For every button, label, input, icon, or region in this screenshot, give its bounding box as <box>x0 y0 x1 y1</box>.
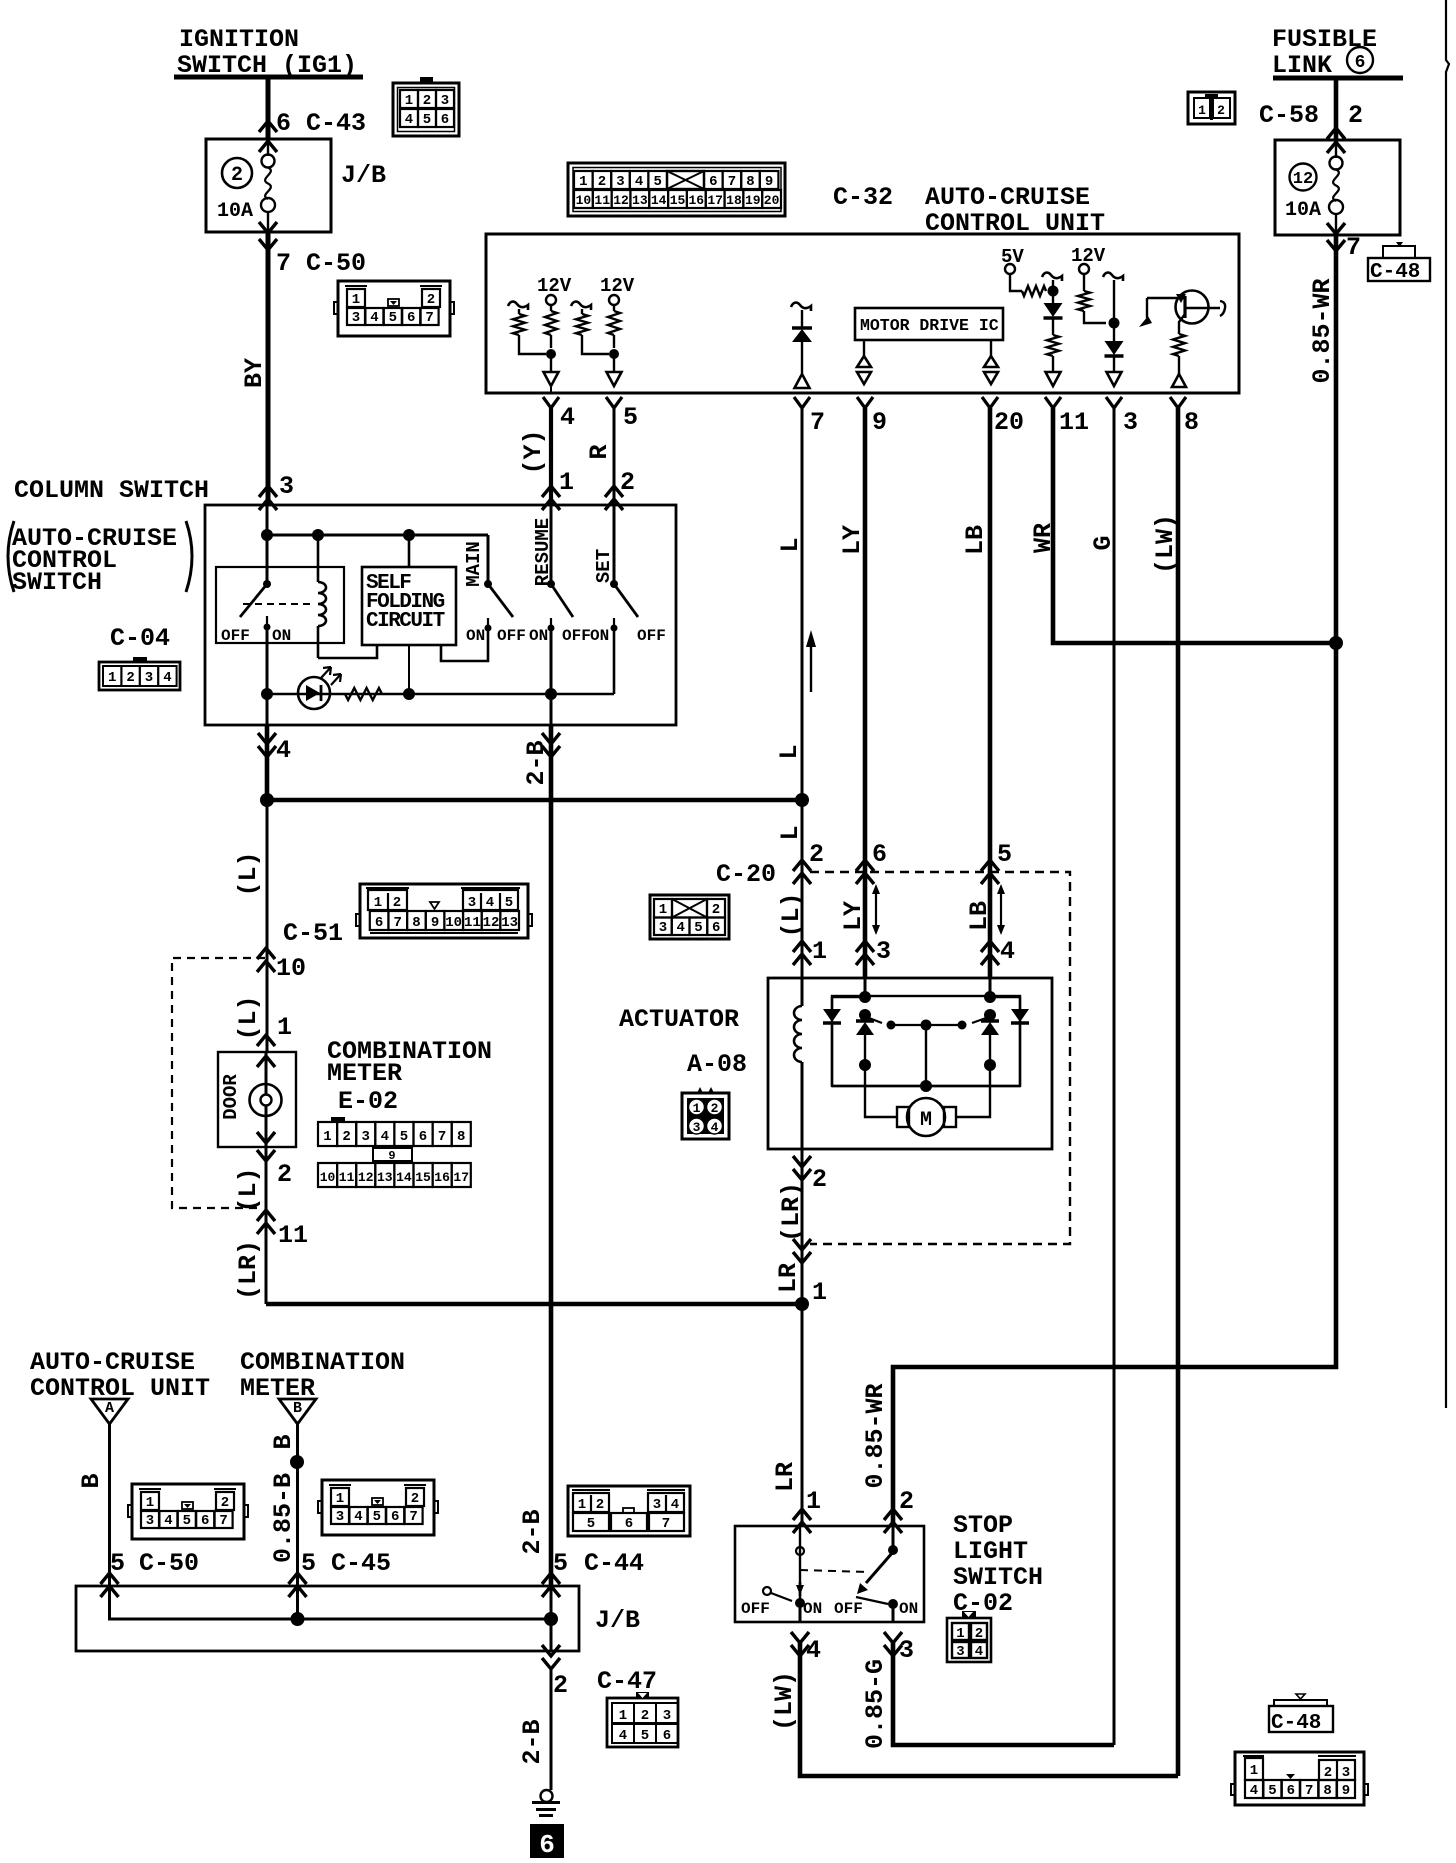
svg-text:LR: LR <box>771 1462 800 1492</box>
svg-text:3: 3 <box>659 920 667 936</box>
svg-text:6: 6 <box>1287 1783 1295 1799</box>
pole2 ON contact dot <box>888 1599 898 1609</box>
svg-text:C-48: C-48 <box>1370 261 1420 284</box>
svg-text:2: 2 <box>342 1129 350 1145</box>
svg-text:6: 6 <box>407 310 415 326</box>
svg-text:1: 1 <box>146 1495 154 1511</box>
wire common to bottom rail <box>925 1025 927 1086</box>
svg-text:7: 7 <box>1305 1783 1313 1799</box>
wire LR actuator to junction <box>801 1149 804 1304</box>
RESUME switch pivot dot <box>547 580 555 588</box>
chevrons actuator pin1 <box>793 941 811 952</box>
wire pole1 to pin4 <box>799 1603 802 1622</box>
motor M <box>897 1107 909 1127</box>
self folding circuit box <box>362 567 456 645</box>
connector pin 6 C-43 chevrons <box>259 121 277 132</box>
svg-text:OFF: OFF <box>221 627 250 645</box>
junction dot WR / 0.85-WR <box>1329 636 1343 650</box>
svg-text:2: 2 <box>427 292 435 308</box>
svg-text:A-08: A-08 <box>687 1050 747 1079</box>
svg-text:C-44: C-44 <box>584 1549 644 1578</box>
junction dot LY lower <box>859 1059 871 1071</box>
svg-text:11: 11 <box>278 1221 308 1250</box>
connector icon C-20 <box>650 895 729 939</box>
svg-text:1: 1 <box>812 937 827 966</box>
svg-text:ON: ON <box>529 627 548 645</box>
svg-text:3: 3 <box>352 310 360 326</box>
svg-text:5: 5 <box>389 310 397 326</box>
svg-text:G: G <box>1089 535 1118 550</box>
svg-text:1: 1 <box>579 174 587 190</box>
stop light switch pole1 wire and circle <box>799 1526 801 1602</box>
pole1 plunger arrow <box>796 1585 804 1595</box>
svg-text:IGNITION: IGNITION <box>179 25 299 54</box>
wire main switch exit pin4 <box>266 694 269 725</box>
coil hook pin3 <box>1103 273 1123 281</box>
wire LY into inner box <box>864 978 867 997</box>
wire pin3 to triangle <box>1113 357 1115 372</box>
chevrons C-20 pin2 <box>793 860 811 871</box>
svg-text:DOOR: DOOR <box>220 1074 242 1120</box>
auto-cruise control unit box C-32 <box>486 234 1239 393</box>
svg-text:RESUME: RESUME <box>532 518 554 586</box>
svg-text:7 C-50: 7 C-50 <box>276 249 366 278</box>
svg-text:LIGHT: LIGHT <box>953 1537 1028 1566</box>
main switch sub-box <box>216 567 344 643</box>
connector icon C-58 (1|2) <box>1188 92 1235 124</box>
svg-text:2: 2 <box>899 1487 914 1516</box>
right flyback diode (down) <box>1019 997 1021 1009</box>
junction dot bus B <box>291 1612 305 1626</box>
junction dot LED rail x551 <box>545 688 557 700</box>
svg-text:AUTO-CRUISE: AUTO-CRUISE <box>30 1348 195 1377</box>
svg-text:4: 4 <box>381 1129 389 1145</box>
connector icon C-04 <box>99 662 180 690</box>
svg-text:B: B <box>293 1400 302 1417</box>
pin mark 20 of C-32 <box>982 397 998 408</box>
svg-text:C-48: C-48 <box>1271 1712 1321 1735</box>
junction block J/B (right, fuse 12) <box>1275 140 1400 235</box>
5V supply circle <box>1005 264 1015 274</box>
svg-text:1: 1 <box>578 1497 586 1513</box>
svg-text:WR: WR <box>1029 523 1058 553</box>
junction dot pin4 <box>546 349 556 359</box>
svg-text:2: 2 <box>221 1495 229 1511</box>
svg-text:6: 6 <box>1355 53 1366 73</box>
junction dot rail right <box>795 793 809 807</box>
wire LY from C-32 pin9 to C-20 pin6 <box>863 408 868 872</box>
svg-text:3: 3 <box>663 1708 671 1724</box>
svg-text:10: 10 <box>576 193 592 208</box>
chevrons meter pin11 <box>257 1210 275 1221</box>
wire (L) DOOR to pin11 <box>265 1147 268 1304</box>
svg-text:LB: LB <box>961 525 990 555</box>
svg-text:OFF: OFF <box>562 627 591 645</box>
svg-text:18: 18 <box>726 193 742 208</box>
junction dot LB top <box>984 991 996 1003</box>
chevrons actuator pin4 <box>981 941 999 952</box>
svg-text:2: 2 <box>277 1160 292 1189</box>
svg-text:J/B: J/B <box>595 1606 640 1635</box>
wire pin3 inside column switch <box>266 505 269 584</box>
svg-text:ON: ON <box>899 1600 918 1618</box>
svg-text:4: 4 <box>635 174 643 190</box>
wire 2-B to ground <box>550 1669 553 1790</box>
svg-text:14: 14 <box>651 193 667 208</box>
svg-text:B: B <box>269 1434 298 1449</box>
svg-text:6: 6 <box>375 915 383 931</box>
svg-text:(L): (L) <box>234 995 263 1040</box>
wire BY from J/B to column switch <box>267 213 269 232</box>
wire L from C-32 pin7 down to junction <box>801 408 804 800</box>
svg-text:M: M <box>920 1109 932 1132</box>
junction dot LED rail x267 <box>261 688 273 700</box>
svg-text:7: 7 <box>662 1516 670 1532</box>
wire G from C-32 pin3 down <box>1113 408 1116 1745</box>
chevrons C-20 pin6 <box>856 860 874 871</box>
svg-text:20: 20 <box>994 408 1024 437</box>
hold coil of main switch <box>317 535 320 582</box>
junction dot pin11 <box>1048 286 1059 297</box>
IC right pin triangles (pin20) <box>990 340 992 356</box>
svg-text:12V: 12V <box>600 275 635 297</box>
junction dot LY switch <box>859 1009 871 1021</box>
chevrons column switch 2-B exit <box>542 746 560 757</box>
svg-text:3: 3 <box>1342 1765 1350 1781</box>
svg-text:10: 10 <box>276 954 306 983</box>
transistor base lead <box>1147 297 1184 299</box>
vacuum coil inside actuator <box>801 978 804 1006</box>
svg-text:3: 3 <box>899 1636 914 1665</box>
MAIN switch pivot dot <box>484 580 492 588</box>
connector icon C-44 <box>568 1486 690 1536</box>
MAIN switch lever <box>488 584 513 617</box>
chevron inside J/B top <box>259 141 277 152</box>
svg-text:ON: ON <box>803 1600 822 1618</box>
junction dot rail left <box>260 793 274 807</box>
chevrons J/B exit C-47 <box>542 1658 560 1669</box>
svg-text:MAIN: MAIN <box>463 541 485 587</box>
svg-text:C-04: C-04 <box>110 624 170 653</box>
wire self-folding circuit bottom to LED rail <box>408 645 410 694</box>
wire 0.85-WR below C-48 <box>1335 214 1337 236</box>
junction dot LR <box>795 1297 809 1311</box>
junction block J/B (bottom) <box>76 1586 579 1651</box>
svg-text:4: 4 <box>560 403 575 432</box>
page edge line <box>1446 0 1449 1408</box>
wire (LW) from C-32 pin8 down <box>1176 408 1181 1776</box>
coil hook pin7 <box>791 303 811 311</box>
RESUME ON contact <box>550 618 552 628</box>
svg-text:3: 3 <box>693 1120 701 1135</box>
wire column pin1 to RESUME pivot <box>550 505 553 584</box>
column switch box <box>205 505 676 725</box>
fuse rating circle 12 <box>1290 164 1317 191</box>
svg-text:3: 3 <box>653 1497 661 1513</box>
junction dot LB switch <box>984 1009 996 1021</box>
wire 2-B through J/B <box>550 1586 553 1651</box>
splice dot 0.85-B <box>290 1455 304 1469</box>
main on-off switch pivot dot <box>263 580 271 588</box>
coil hook pin4 branch <box>508 302 528 310</box>
right branch to flyback diode <box>990 996 1020 998</box>
wire LY to motor left <box>865 1065 897 1117</box>
svg-text:5: 5 <box>505 895 513 911</box>
svg-text:SET: SET <box>593 549 615 583</box>
junction dot pin5 <box>609 349 619 359</box>
svg-text:6: 6 <box>201 1513 209 1529</box>
chevrons at J/B bottom pin 7 C-50 <box>259 222 277 233</box>
junction dot bottom rail <box>920 1080 932 1092</box>
wire L from column pin4 down to junction rail <box>265 725 270 800</box>
svg-text:A: A <box>105 1400 114 1417</box>
open triangle pin7 (up) <box>795 374 810 388</box>
svg-text:1: 1 <box>812 1278 827 1307</box>
connector icon C-47 <box>607 1698 678 1747</box>
svg-text:11: 11 <box>339 1170 355 1185</box>
pin mark 8 of C-32 <box>1170 397 1186 408</box>
svg-text:OFF: OFF <box>497 627 526 645</box>
boxed label C-48 (bottom) <box>1269 1706 1333 1732</box>
svg-text:8: 8 <box>1323 1783 1331 1799</box>
svg-text:2: 2 <box>809 840 824 869</box>
wire LB to motor right <box>955 1065 990 1117</box>
svg-text:1: 1 <box>956 1626 964 1642</box>
svg-text:R: R <box>585 444 614 459</box>
svg-text:AUTO-CRUISE: AUTO-CRUISE <box>925 183 1090 212</box>
svg-text:2: 2 <box>126 670 134 686</box>
chevron DOOR pin1 upper <box>257 1035 275 1046</box>
resistor pin8 <box>1173 334 1185 356</box>
chevrons J/B entry B <box>289 1573 307 1584</box>
door indicator bulb <box>250 1084 282 1116</box>
svg-text:1: 1 <box>659 902 667 918</box>
svg-text:11: 11 <box>464 915 481 931</box>
wire (L) down to combination meter <box>266 800 269 1052</box>
svg-text:1: 1 <box>336 1491 344 1507</box>
svg-text:1: 1 <box>277 1013 292 1042</box>
svg-text:FUSIBLE: FUSIBLE <box>1272 25 1377 54</box>
svg-text:L: L <box>776 537 805 552</box>
pin mark 7 of C-32 <box>794 397 810 408</box>
svg-text:3: 3 <box>1123 408 1138 437</box>
wire SET ON contact to LED rail corner <box>613 628 616 694</box>
illumination LED <box>298 677 330 709</box>
stop light switch box <box>735 1526 924 1622</box>
J/B internal bus <box>110 1586 552 1619</box>
svg-text:8: 8 <box>746 174 754 190</box>
main on-off switch lever <box>240 584 267 617</box>
wire coil to self-folding circuit <box>318 645 377 658</box>
svg-text:3: 3 <box>876 937 891 966</box>
svg-text:12: 12 <box>1293 170 1313 189</box>
svg-text:2: 2 <box>411 1491 419 1507</box>
fusible link circled 6 <box>1347 47 1373 73</box>
svg-text:6 C-43: 6 C-43 <box>276 109 366 138</box>
wire (LW) stop light pin4 to LW net <box>800 1640 1178 1776</box>
resistor pin3 <box>1083 274 1085 291</box>
svg-text:(LW): (LW) <box>770 1671 799 1731</box>
MAIN ON contact <box>487 618 489 628</box>
svg-text:COLUMN SWITCH: COLUMN SWITCH <box>14 476 209 505</box>
resistor pin4 pull-up <box>550 305 552 311</box>
wire LY C-20 to actuator pin3 <box>863 872 868 978</box>
wire pole2 to pin3 <box>892 1604 895 1622</box>
top rail inside column switch <box>267 534 488 537</box>
wire B triangle-B inside J/B <box>296 1586 299 1619</box>
changeover switch lever right <box>972 1018 986 1023</box>
fuse 12 symbol <box>1330 157 1343 170</box>
svg-text:0.85-WR: 0.85-WR <box>1308 278 1337 383</box>
svg-text:9: 9 <box>388 1149 395 1163</box>
page reference 6 <box>530 1824 564 1858</box>
svg-text:5: 5 <box>110 1549 125 1578</box>
wire pin7 to triangle <box>801 342 803 373</box>
svg-text:6: 6 <box>419 1129 427 1145</box>
svg-text:6: 6 <box>539 1830 555 1858</box>
svg-text:1: 1 <box>806 1487 821 1516</box>
pole2 top dot <box>892 1526 895 1546</box>
actuator box <box>768 978 1052 1149</box>
fuse rating circle 2 <box>222 158 252 188</box>
input arrow at transistor base <box>1139 316 1152 327</box>
pin mark 3 of C-32 <box>1106 397 1122 408</box>
svg-text:4: 4 <box>1000 937 1015 966</box>
resistor pin11 <box>1052 319 1054 335</box>
svg-text:2: 2 <box>620 468 635 497</box>
svg-text:LY: LY <box>838 525 867 555</box>
ground triangle B <box>279 1399 316 1424</box>
connector icon C-51 <box>360 884 528 938</box>
svg-text:10: 10 <box>445 915 462 931</box>
connector icon C-43 <box>393 83 459 136</box>
open triangle pin11 <box>1046 372 1061 386</box>
changeover contact dot left <box>887 1021 896 1030</box>
svg-text:8: 8 <box>412 915 420 931</box>
wire actuator pin2 exit <box>793 1169 811 1180</box>
svg-text:1: 1 <box>1250 1763 1258 1779</box>
pole1 lever <box>771 1593 792 1601</box>
mechanical link dashed (stop light) <box>800 1570 868 1572</box>
pole2 contact lever <box>856 1597 888 1604</box>
wire B from triangle B <box>296 1424 299 1586</box>
svg-text:17: 17 <box>453 1170 469 1185</box>
wire 5V to resistor <box>1010 274 1022 291</box>
svg-text:13: 13 <box>501 915 518 931</box>
svg-text:4: 4 <box>354 1509 362 1525</box>
connector icon C-48 (bottom) <box>1235 1752 1364 1805</box>
svg-text:BY: BY <box>240 358 269 388</box>
SET switch lever <box>614 584 638 617</box>
resistor pin4 branch <box>518 309 520 314</box>
svg-text:5: 5 <box>373 1509 381 1525</box>
junction dot pin3 <box>1109 318 1120 329</box>
svg-text:C-51: C-51 <box>283 919 343 948</box>
svg-text:3: 3 <box>336 1509 344 1525</box>
chevrons C-20 pin1 bottom <box>793 1252 811 1263</box>
svg-text:2: 2 <box>812 1165 827 1194</box>
svg-text:5: 5 <box>694 920 702 936</box>
svg-text:B: B <box>77 1473 106 1488</box>
svg-text:4: 4 <box>164 1513 172 1529</box>
wire (Y) from C-32 pin4 to column switch pin1 <box>549 408 553 505</box>
svg-text:8: 8 <box>1184 408 1199 437</box>
svg-text:1: 1 <box>693 1101 701 1116</box>
wire pin7 internal <box>801 310 803 327</box>
direction arrow on wire L <box>810 647 812 692</box>
open triangle pin5 <box>613 354 615 372</box>
SET ON contact <box>613 618 615 628</box>
diode LB (up) <box>989 1015 991 1021</box>
svg-text:4: 4 <box>405 112 413 128</box>
svg-text:(L): (L) <box>234 1167 263 1212</box>
chevron DOOR pin1 lower <box>257 1056 275 1067</box>
svg-text:(L): (L) <box>234 851 263 896</box>
svg-text:0.85-WR: 0.85-WR <box>861 1383 890 1488</box>
pin mark 9 of C-32 <box>857 397 873 408</box>
boxed label C-48 (top) <box>1368 258 1430 281</box>
IC left pin triangles (pin9) <box>863 340 865 356</box>
chevrons stop light pin2 <box>884 1509 902 1520</box>
svg-text:1: 1 <box>374 895 382 911</box>
svg-text:2: 2 <box>1348 101 1363 130</box>
chevrons stop light pin1 <box>793 1509 811 1520</box>
transistor emitter lead down <box>1179 314 1185 334</box>
svg-text:15: 15 <box>415 1170 431 1185</box>
svg-text:1: 1 <box>1198 103 1206 118</box>
transistor base bar <box>1183 296 1186 318</box>
svg-text:5: 5 <box>183 1513 191 1529</box>
chevrons column switch pin2 <box>605 486 623 497</box>
wire BY from ignition switch to J/B fuse <box>266 77 271 140</box>
svg-text:1: 1 <box>352 292 360 308</box>
svg-text:11: 11 <box>1059 408 1089 437</box>
svg-text:2-B: 2-B <box>518 1719 547 1764</box>
wire R from C-32 pin5 to column switch pin2 <box>613 408 616 505</box>
svg-text:6: 6 <box>709 174 717 190</box>
svg-text:10A: 10A <box>217 200 253 223</box>
svg-text:2: 2 <box>598 174 606 190</box>
wire 0.85-WR from fusible link <box>1334 78 1339 141</box>
svg-text:OFF: OFF <box>834 1600 863 1618</box>
svg-text:8: 8 <box>457 1129 465 1145</box>
svg-text:0.85-G: 0.85-G <box>861 1659 890 1749</box>
coil hook pin5 branch <box>571 302 591 310</box>
ignition switch feed bar <box>174 75 363 80</box>
chevrons J/B entry 2-B <box>542 1573 560 1584</box>
chevron C-58 pin2 <box>1327 128 1345 139</box>
diode pin3 (cathode down) <box>1113 323 1115 342</box>
pole1 OFF contact circle <box>763 1587 771 1595</box>
svg-text:3: 3 <box>146 1513 154 1529</box>
svg-text:6: 6 <box>663 1728 671 1744</box>
coil hook pin11 <box>1042 273 1062 281</box>
svg-text:4: 4 <box>671 1497 679 1513</box>
svg-text:4: 4 <box>486 895 494 911</box>
transistor emitter arrow <box>1176 294 1186 303</box>
svg-text:5: 5 <box>423 112 431 128</box>
junction dot rail x409 <box>403 529 415 541</box>
svg-text:16: 16 <box>689 193 705 208</box>
wire 0.85-WR from fusible link to stop light <box>893 643 1336 1526</box>
svg-text:6: 6 <box>391 1509 399 1525</box>
wire B from triangle A <box>108 1424 111 1586</box>
connector icon C-50 (bottom) <box>132 1484 244 1539</box>
svg-text:C-58: C-58 <box>1259 101 1319 130</box>
LED rail inside column switch <box>267 693 614 696</box>
pole1 ON contact dot <box>795 1598 805 1608</box>
wire LB C-20 to actuator pin4 <box>988 872 993 978</box>
